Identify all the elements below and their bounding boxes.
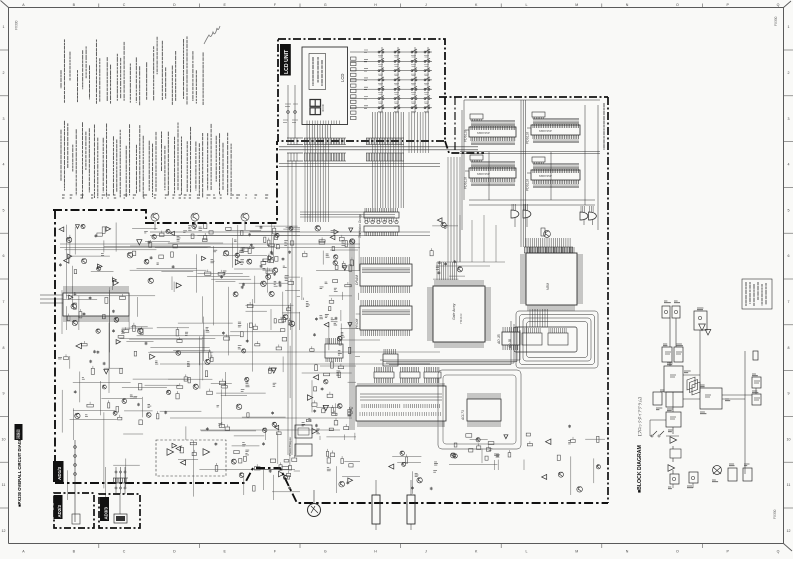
svg-text:DRAM: DRAM [355,275,359,285]
svg-text:L: L [526,3,528,7]
svg-text:D: D [173,3,176,7]
svg-text:J: J [425,550,427,554]
svg-text:AD JB: AD JB [497,334,501,345]
svg-text:5: 5 [3,208,5,212]
svg-text:M58725P: M58725P [539,174,552,178]
svg-text:C: C [123,550,126,554]
svg-text:N: N [626,3,629,7]
svg-text:■BLOCK DIAGRAM: ■BLOCK DIAGRAM [637,445,643,493]
svg-text:Gate Array: Gate Array [452,303,456,320]
svg-text:【ブロックダイアグラム】: 【ブロックダイアグラム】 [637,395,642,438]
svg-text:7: 7 [788,300,790,304]
svg-text:12: 12 [787,529,791,533]
svg-text:10: 10 [2,437,6,441]
svg-text:N: N [626,550,629,554]
svg-text:FX330: FX330 [774,16,778,26]
svg-text:回路図: 回路図 [16,429,21,439]
svg-text:Transistor Group: Transistor Group [358,214,362,238]
svg-text:FX330: FX330 [773,509,777,519]
svg-text:11: 11 [2,483,6,487]
svg-text:LCD UNIT: LCD UNIT [284,49,290,74]
svg-text:3: 3 [788,117,790,121]
svg-text:G: G [324,3,327,7]
svg-text:2: 2 [3,71,5,75]
svg-text:FX330: FX330 [15,20,19,30]
svg-text:10: 10 [787,437,791,441]
svg-text:4: 4 [3,163,5,167]
svg-text:ACL73: ACL73 [461,410,465,421]
svg-text:O: O [676,3,679,7]
svg-text:AD3/3: AD3/3 [104,506,109,519]
svg-text:8: 8 [3,346,5,350]
svg-text:6: 6 [788,254,790,258]
svg-text:9: 9 [788,392,790,396]
svg-text:LCD: LCD [340,74,345,82]
svg-text:5: 5 [788,208,790,212]
svg-text:PD6116: PD6116 [526,179,530,191]
svg-text:1: 1 [3,25,5,29]
svg-text:D: D [173,550,176,554]
svg-text:9: 9 [3,392,5,396]
svg-text:Q: Q [777,3,780,7]
svg-text:M58725P: M58725P [477,131,490,135]
svg-text:O: O [676,550,679,554]
svg-text:2: 2 [788,71,790,75]
svg-text:C: C [123,3,126,7]
svg-text:YM3433: YM3433 [459,313,463,324]
svg-text:7: 7 [3,300,5,304]
svg-text:1: 1 [788,25,790,29]
svg-text:G: G [324,550,327,554]
svg-text:11: 11 [787,483,791,487]
svg-text:■PX330 OVERALL CIRCUIT DIAGRAM: ■PX330 OVERALL CIRCUIT DIAGRAM [17,431,22,507]
svg-text:H: H [374,3,377,7]
svg-text:M: M [575,3,578,7]
svg-text:AD2/3: AD2/3 [57,504,62,517]
svg-text:4: 4 [788,163,790,167]
svg-text:AD1/3: AD1/3 [57,467,62,480]
svg-text:M5M: M5M [546,283,550,290]
svg-text:J: J [425,3,427,7]
svg-text:Q: Q [777,550,780,554]
svg-text:PD6116: PD6116 [526,132,530,144]
svg-text:H: H [374,550,377,554]
svg-text:AD JB: AD JB [508,338,512,349]
svg-text:3: 3 [3,117,5,121]
svg-text:8: 8 [788,346,790,350]
svg-text:L: L [526,550,528,554]
svg-text:PROM: PROM [355,319,359,329]
svg-text:M: M [575,550,578,554]
svg-text:M58725P: M58725P [477,172,490,176]
svg-text:12: 12 [2,529,6,533]
svg-text:6: 6 [3,254,5,258]
svg-text:M58725P: M58725P [539,129,552,133]
